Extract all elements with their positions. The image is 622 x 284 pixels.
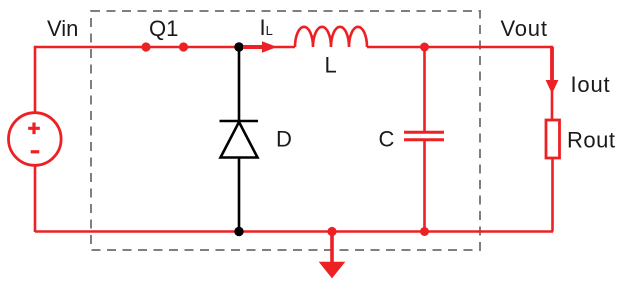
- svg-text:D: D: [276, 127, 292, 152]
- ground: [319, 232, 346, 279]
- wire: left vertical from top rail to source: [34, 46, 37, 112]
- node: inductor/capacitor junction: [420, 43, 429, 52]
- svg-text:Vout: Vout: [501, 16, 548, 41]
- current arrow Iout: [546, 47, 559, 94]
- node: capacitor/bottom rail junction: [420, 227, 429, 236]
- enclosure dashed box: [91, 11, 480, 250]
- svg-text:IL: IL: [260, 15, 273, 40]
- svg-text:Rout: Rout: [567, 128, 615, 153]
- wire: Rout bottom to bottom rail: [551, 158, 554, 232]
- svg-text:C: C: [379, 127, 395, 152]
- svg-text:Vin: Vin: [47, 16, 78, 41]
- svg-text:Iout: Iout: [571, 72, 611, 97]
- wire: bottom rail: [35, 230, 553, 233]
- node: ground junction: [327, 227, 336, 236]
- node: diode/ground junction: [234, 227, 243, 236]
- diode D: [220, 47, 259, 231]
- resistor Rout: [546, 120, 560, 158]
- wire: Vout down to Rout: [551, 46, 554, 120]
- switch Q1 (closed contact dots): [141, 42, 188, 51]
- wire: top rail Vin to inductor: [35, 46, 295, 49]
- voltage source V1: [9, 113, 62, 166]
- svg-text:Q1: Q1: [149, 16, 178, 41]
- node: switch/diode junction: [234, 42, 243, 51]
- svg-text:L: L: [325, 53, 337, 78]
- inductor L: [295, 27, 367, 47]
- capacitor C: [404, 46, 444, 231]
- wire: source bottom to bottom rail: [34, 166, 37, 232]
- current arrow IL: [243, 41, 277, 53]
- wire: inductor to Vout corner: [367, 46, 552, 49]
